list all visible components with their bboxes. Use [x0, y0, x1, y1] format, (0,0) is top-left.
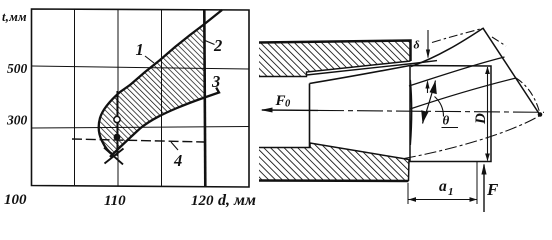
- svg-text:0: 0: [285, 99, 291, 110]
- svg-text:1: 1: [448, 186, 454, 198]
- svg-text:θ: θ: [443, 113, 450, 128]
- short dash-dot bit right of face: [492, 37, 506, 46]
- leader for label 4: [171, 142, 178, 150]
- grid vertical line d=105: [74, 9, 76, 186]
- flange outer edge: [411, 28, 483, 66]
- svg-text:1: 1: [136, 40, 144, 59]
- svg-text:2: 2: [213, 36, 222, 55]
- svg-text:120: 120: [191, 193, 214, 209]
- leader for label 2: [205, 41, 215, 45]
- die bottom block (hatched): [259, 143, 409, 181]
- marker X cross: [104, 148, 124, 165]
- grid vertical line d=115: [161, 9, 163, 186]
- leader for label 1: [145, 56, 154, 63]
- die top block (hatched): [259, 41, 411, 77]
- flange end face: [483, 28, 540, 115]
- svg-text:100: 100: [4, 192, 27, 208]
- svg-text:F: F: [275, 93, 286, 109]
- delta dimension arrows (wall thickness): [427, 30, 430, 93]
- svg-text:δ: δ: [414, 38, 420, 52]
- grid horizontal line t=300: [32, 127, 249, 129]
- punch cylindrical part rectangle: [410, 66, 491, 162]
- theta underline tick: [442, 127, 459, 129]
- curve 2 (steep right boundary at d=120): [204, 10, 205, 188]
- svg-text:300: 300: [6, 113, 28, 128]
- svg-text:110: 110: [104, 193, 126, 209]
- F0 force arrow: [262, 109, 318, 111]
- svg-text:t,мм: t,мм: [2, 10, 27, 24]
- lower swing dash-dot arc A: [404, 116, 539, 159]
- svg-text:F: F: [486, 180, 499, 199]
- svg-text:3: 3: [211, 72, 220, 91]
- a1 extension line right: [476, 161, 478, 204]
- die bottom block bore edge and cone seat: [259, 143, 409, 181]
- die top block bore edge: [259, 61, 411, 77]
- flange inner edge arc: [409, 57, 505, 86]
- curve 4 dashed horizontal line: [72, 139, 204, 142]
- main horizontal centerline dash-dot: [318, 110, 544, 112]
- curve 3 (lower boundary sweeping right): [110, 88, 219, 157]
- cone punch outline: [310, 66, 411, 148]
- pivot dot on centerline: [538, 112, 543, 117]
- inner swing solid arc: [410, 78, 516, 109]
- svg-text:4: 4: [173, 151, 182, 170]
- hatched region between curves: [99, 24, 205, 155]
- die bottom block bottom edge: [259, 179, 409, 182]
- tube outer wall line: [307, 61, 438, 75]
- grid vertical line d=110: [117, 9, 119, 186]
- a1 extension line left: [407, 183, 409, 204]
- svg-text:d, мм: d, мм: [218, 192, 256, 209]
- plot box frame: [32, 9, 250, 187]
- svg-text:D: D: [473, 113, 489, 125]
- svg-text:500: 500: [7, 61, 28, 76]
- die top block top edge and end face: [259, 41, 411, 62]
- marker filled circle: [114, 134, 121, 141]
- curve 1 (upper-left boundary with nose curl): [99, 10, 222, 155]
- svg-text:a: a: [439, 178, 447, 195]
- upper swing dash-dot arc to apex: [432, 28, 484, 43]
- F force arrow (up): [483, 165, 485, 213]
- inner swing arc dash-dot continuation to pivot dot: [516, 78, 540, 112]
- a1 dimension line with arrows: [409, 199, 478, 201]
- marker open circle: [114, 116, 120, 122]
- theta dimension steep line: [423, 81, 436, 124]
- theta angle arc: [435, 97, 444, 117]
- D dimension line with arrows: [487, 67, 489, 161]
- grid horizontal line t=500: [32, 66, 249, 69]
- marker vertical line at d=110: [116, 91, 118, 156]
